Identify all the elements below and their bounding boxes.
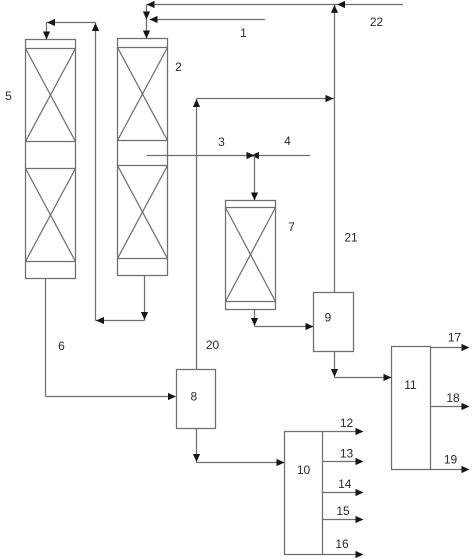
- column 5 internal tray line 2: [26, 141, 76, 143]
- wire: column 7 bottoms horizontal into box 9: [255, 326, 314, 328]
- arrowhead up at stream 20 corner: [193, 99, 200, 107]
- arrowhead left: stream 1 into feed drop: [150, 16, 158, 23]
- arrowhead left at riser bottom corner: [96, 317, 104, 324]
- wire: stream 1 feed line: [150, 19, 266, 21]
- svg-text:1: 1: [240, 26, 247, 40]
- svg-text:17: 17: [448, 331, 462, 345]
- wire: column 7 bottoms vertical: [254, 310, 256, 327]
- column 2 internal tray line 2: [118, 140, 168, 142]
- arrowhead right: stream 15: [356, 516, 364, 523]
- wire: box 9 outlet horizontal into box 11: [335, 377, 392, 379]
- wire: box 8 outlet horizontal into box 10: [197, 462, 285, 464]
- wire: column 2 bottoms horizontal to riser: [96, 320, 145, 322]
- column 2 internal tray line 4: [118, 258, 168, 260]
- arrowhead right: stream 12: [356, 428, 364, 435]
- arrowhead left at column 5 feed corner: [47, 19, 55, 26]
- arrowhead down into column 7 top: [251, 193, 258, 201]
- svg-text:21: 21: [344, 231, 358, 245]
- arrowhead left: stream 22 joining junction: [337, 1, 345, 8]
- box 9 (separator): [314, 293, 354, 352]
- svg-text:8: 8: [190, 390, 197, 404]
- arrowhead right into box 8: [168, 393, 176, 400]
- column 5 internal tray line 3: [26, 168, 76, 170]
- wire: stream 19 product line: [431, 469, 466, 471]
- wire: recycle riser right of column 5: [95, 23, 97, 321]
- column 2 vessel outline: [118, 39, 168, 276]
- column 7 packing X section 1: [226, 208, 276, 302]
- svg-text:18: 18: [446, 391, 460, 405]
- svg-text:9: 9: [325, 311, 332, 325]
- wire: stream 12 product line: [323, 431, 360, 433]
- svg-text:13: 13: [340, 447, 354, 461]
- arrowhead right: stream 20 joins stream 21: [326, 95, 334, 102]
- svg-text:22: 22: [370, 15, 384, 29]
- svg-text:12: 12: [340, 416, 354, 430]
- arrowhead right: stream 18: [462, 403, 470, 410]
- column 2 internal tray line 1: [118, 47, 168, 49]
- svg-text:2: 2: [175, 60, 182, 74]
- wire: column 2 bottoms outlet vertical: [144, 276, 146, 321]
- wire: drop into column 5 top: [46, 23, 48, 40]
- wire: box 8 outlet vertical: [196, 429, 198, 463]
- arrowhead down at box 9 outlet corner: [331, 369, 338, 377]
- wire: stream 3 from column 2 midpoint: [147, 155, 255, 157]
- wire: box 9 outlet vertical: [334, 352, 336, 378]
- box 11 (fractionator): [392, 347, 431, 470]
- arrowhead right: stream 16: [356, 551, 364, 558]
- wire: stream 13 product line: [323, 461, 360, 463]
- wire: stream 20 vertical from box 8 top: [196, 99, 198, 370]
- svg-text:7: 7: [288, 220, 295, 234]
- arrowhead up at top of stream 21: [331, 5, 338, 13]
- arrowhead right into box 9: [306, 323, 314, 330]
- wire: stream 17 product line: [431, 347, 466, 349]
- wire: stream 4 line: [255, 155, 311, 157]
- svg-text:11: 11: [404, 378, 417, 392]
- svg-text:16: 16: [335, 537, 349, 551]
- column 2 packing X section 1: [118, 48, 168, 141]
- svg-text:3: 3: [218, 135, 225, 149]
- column 5 internal tray line 1: [26, 48, 76, 50]
- column 7 internal tray line 1: [226, 207, 276, 209]
- wire: drop from junction into column 7: [254, 156, 256, 201]
- arrowhead down at column 2 bottoms corner: [141, 312, 148, 320]
- column 7 internal tray line 2: [226, 301, 276, 303]
- wire: stream 6 vertical from column 5 bottoms: [45, 279, 47, 397]
- wire: stream 16 product line: [323, 554, 360, 556]
- column 2 packing X section 2: [118, 166, 168, 259]
- arrowhead right: stream 19: [462, 466, 470, 473]
- arrowhead down at column 7 bottoms corner: [251, 318, 258, 326]
- column 5 packing X section 2: [26, 169, 76, 262]
- wire: vertical feed drop into column 2: [146, 5, 148, 39]
- column 5 packing X section 1: [26, 49, 76, 142]
- svg-text:14: 14: [338, 477, 352, 491]
- column 7 vessel outline: [226, 201, 276, 310]
- arrowhead right: stream 3 at junction: [247, 152, 255, 159]
- box 8 (separator): [177, 370, 216, 429]
- wire: stream 6 horizontal into box 8: [46, 396, 176, 398]
- arrowhead right: stream 13: [356, 458, 364, 465]
- arrowhead right into box 11: [384, 374, 392, 381]
- wire: top header line into column 2 feed: [147, 4, 404, 6]
- column 5 internal tray line 4: [26, 261, 76, 263]
- svg-text:6: 6: [58, 339, 65, 353]
- wire: stream 14 product line: [323, 492, 360, 494]
- box 10 (fractionator): [285, 432, 323, 555]
- column 5 vessel outline: [26, 40, 76, 279]
- arrowhead right into box 10: [277, 459, 285, 466]
- svg-text:10: 10: [297, 463, 311, 477]
- wire: recycle top horizontal to column 5: [47, 22, 96, 24]
- arrowhead right: stream 14: [356, 489, 364, 496]
- column 2 internal tray line 3: [118, 165, 168, 167]
- wire: stream 18 product line: [431, 406, 466, 408]
- svg-text:20: 20: [206, 338, 220, 352]
- arrowhead down at box 8 outlet corner: [193, 454, 200, 462]
- arrowhead down at stream 1 junction: [143, 12, 150, 20]
- arrowhead left: stream 4 at junction: [251, 152, 259, 159]
- arrowhead right: stream 17: [462, 344, 470, 351]
- arrowhead down into column 5 top: [43, 32, 50, 40]
- svg-text:19: 19: [444, 453, 458, 467]
- wire: stream 20 horizontal into stream 21: [197, 98, 335, 100]
- svg-text:15: 15: [336, 504, 350, 518]
- svg-text:5: 5: [5, 89, 12, 103]
- wire: stream 15 product line: [323, 519, 360, 521]
- svg-text:4: 4: [284, 134, 291, 148]
- wire: stream 21 vertical from box 9 up to top junction: [334, 5, 336, 293]
- arrowhead left at top-left corner: [147, 1, 155, 8]
- arrowhead down into column 2 top: [143, 31, 150, 39]
- arrowhead up at top of recycle riser: [92, 23, 99, 31]
